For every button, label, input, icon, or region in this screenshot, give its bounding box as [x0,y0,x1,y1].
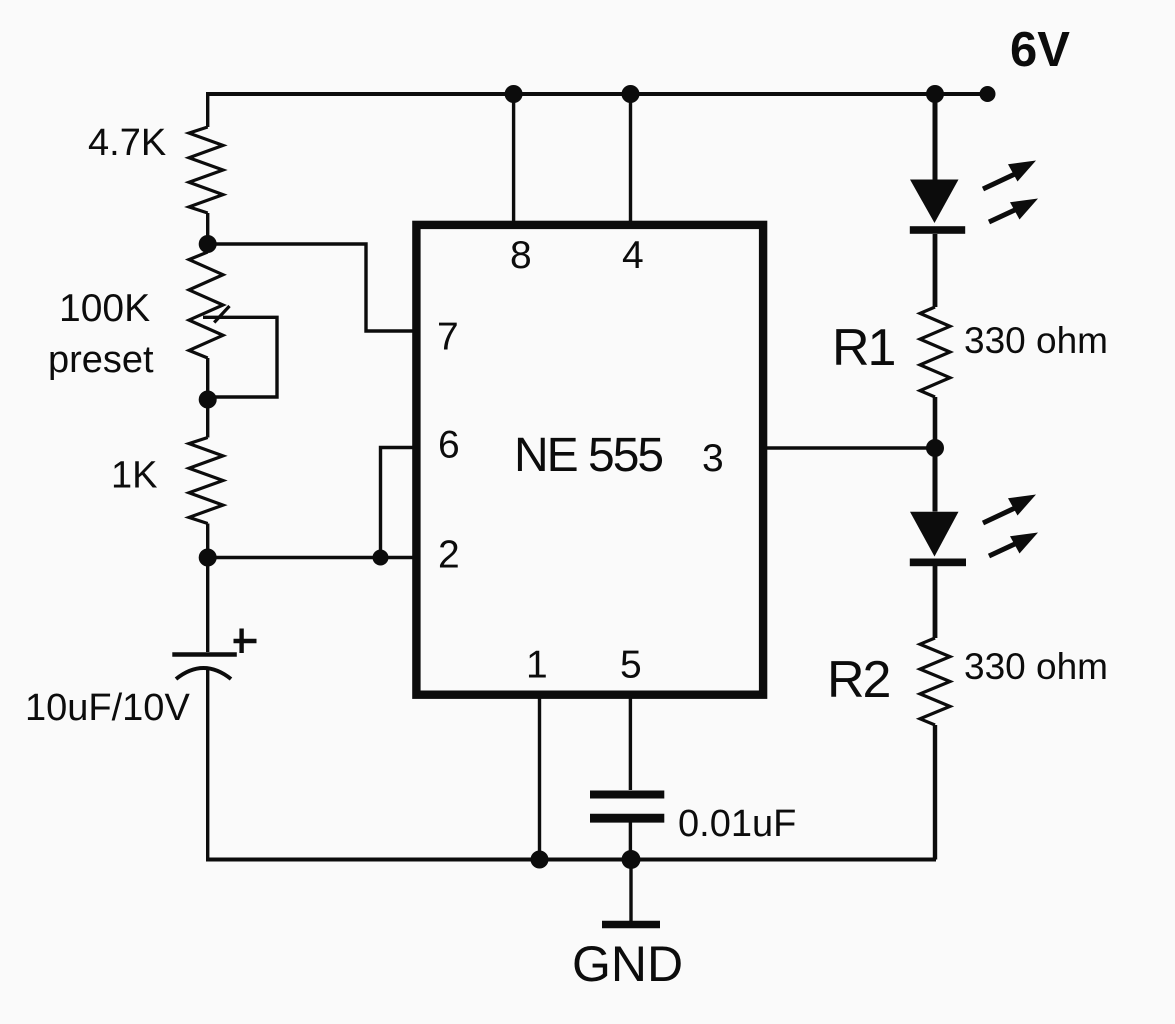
svg-text:4: 4 [622,234,644,277]
svg-text:NE 555: NE 555 [514,429,662,482]
svg-text:1: 1 [526,644,548,687]
svg-text:6: 6 [438,424,460,467]
svg-text:100K: 100K [59,287,150,330]
svg-text:3: 3 [702,437,724,480]
svg-text:4.7K: 4.7K [88,122,166,164]
svg-text:2: 2 [438,534,460,577]
svg-text:preset: preset [48,339,154,381]
svg-text:8: 8 [510,234,532,277]
svg-text:6V: 6V [1010,23,1070,77]
svg-text:GND: GND [572,936,683,992]
svg-text:10uF/10V: 10uF/10V [25,687,190,729]
svg-text:330 ohm: 330 ohm [964,320,1108,361]
svg-text:330 ohm: 330 ohm [964,646,1108,687]
svg-text:1K: 1K [111,455,157,497]
svg-text:5: 5 [620,644,642,687]
svg-text:R2: R2 [827,651,890,709]
svg-text:7: 7 [437,316,459,359]
svg-text:R1: R1 [832,319,895,377]
svg-text:0.01uF: 0.01uF [678,803,796,845]
